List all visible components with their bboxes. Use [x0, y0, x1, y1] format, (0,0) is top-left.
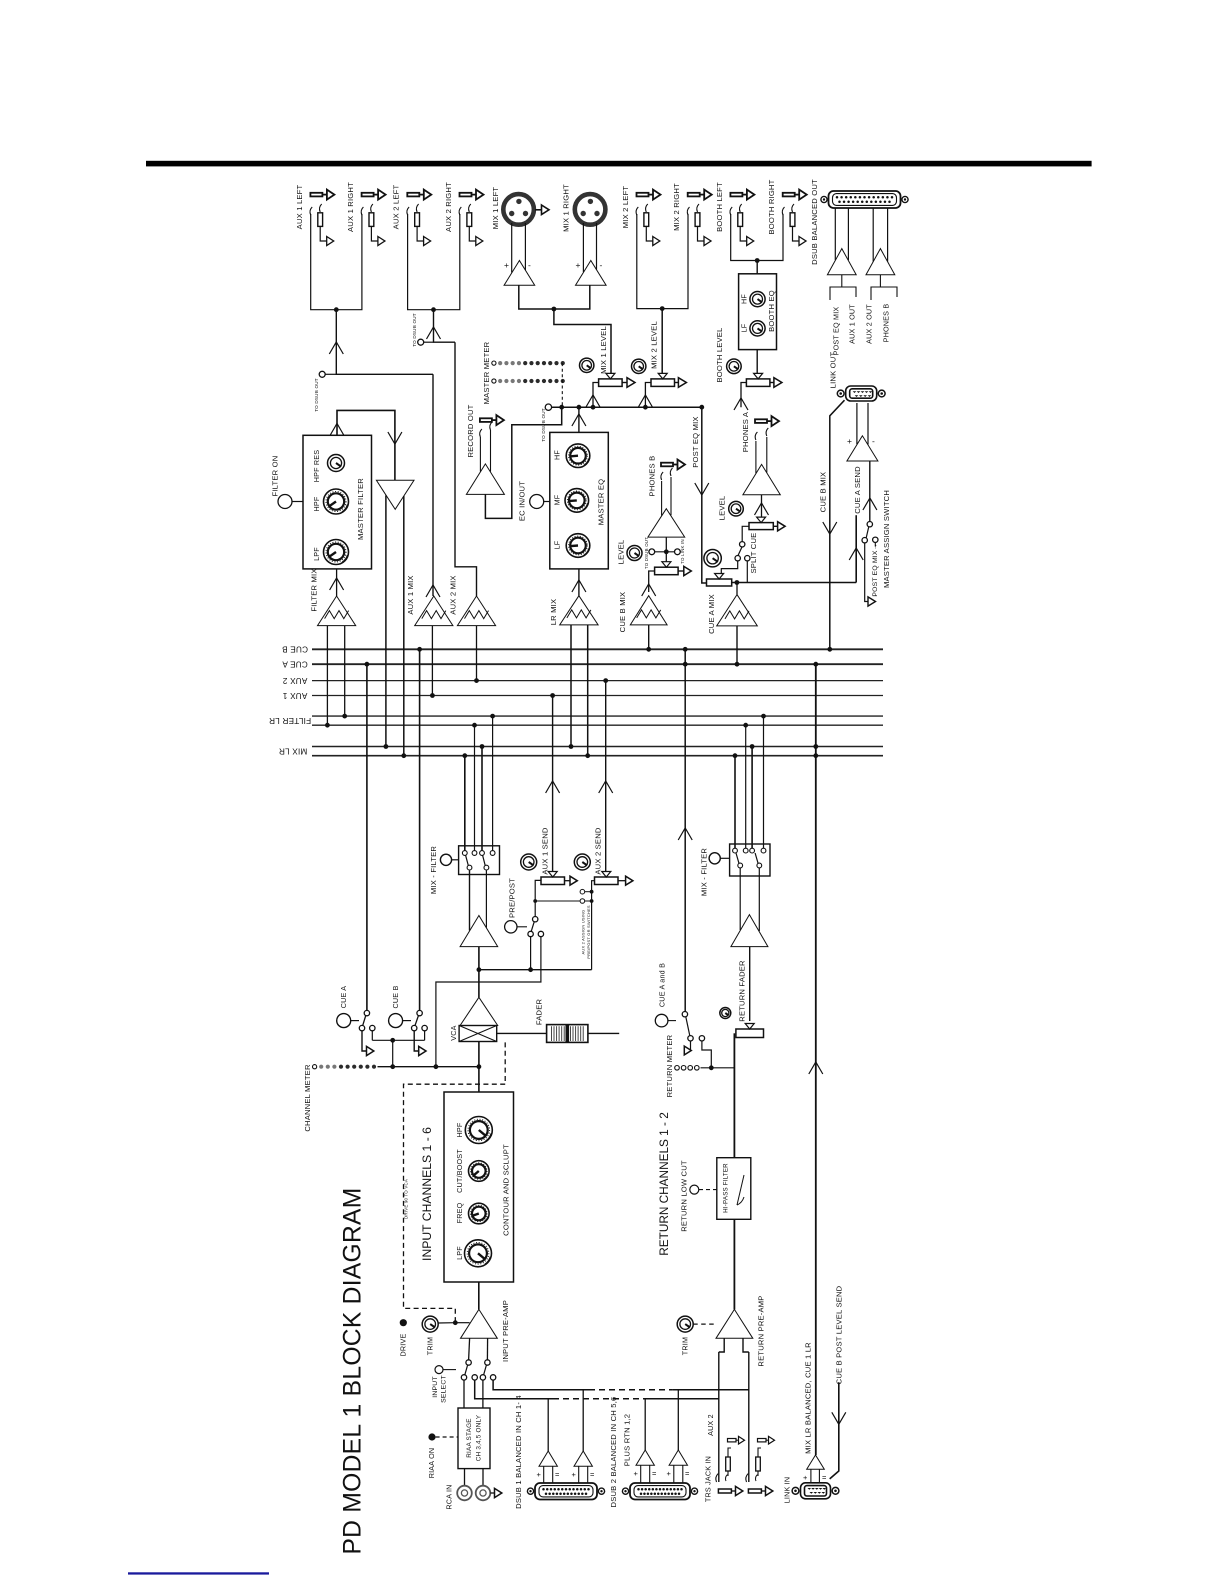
driver U-MIX1R [582, 223, 584, 272]
svg-text:DRIVE 90 TO VCA: DRIVE 90 TO VCA [404, 1179, 409, 1219]
svg-text:MF: MF [552, 494, 561, 505]
fader phones B [655, 567, 679, 575]
svg-text:HF: HF [739, 294, 748, 304]
wire return cue A and B feed [684, 649, 686, 1011]
fader AUX 2 SEND [595, 877, 619, 885]
wire post-eq rail [552, 406, 702, 408]
svg-text:DSUB 1 BALANCED IN CH 1- 4: DSUB 1 BALANCED IN CH 1- 4 [514, 1395, 523, 1509]
svg-text:VCA: VCA [449, 1025, 458, 1040]
wire aux2 fader input [592, 881, 595, 885]
bus CUEA [312, 663, 883, 665]
knob cue A level [704, 550, 721, 567]
svg-text:+: + [576, 260, 581, 270]
svg-text:RETURN PRE-AMP: RETURN PRE-AMP [756, 1295, 765, 1366]
svg-text:CUE B POST LEVEL SEND: CUE B POST LEVEL SEND [834, 1285, 843, 1384]
node TO DSUB OUT / TO LINK IN [665, 537, 667, 562]
amp RETURN PRE-AMP [716, 1309, 753, 1338]
wire AUX1 feed [336, 310, 433, 375]
driver DSUB2-L [636, 1450, 654, 1465]
svg-text:TO DSUB OUT: TO DSUB OUT [412, 313, 417, 347]
svg-text:RCA IN: RCA IN [444, 1484, 453, 1509]
svg-text:CH 3,4,5 ONLY: CH 3,4,5 ONLY [476, 1414, 483, 1461]
svg-text:CUE A and B: CUE A and B [657, 963, 666, 1007]
svg-text:TRIM: TRIM [425, 1337, 434, 1355]
svg-text:AUX 1 LEFT: AUX 1 LEFT [295, 185, 304, 230]
svg-text:PD MODEL 1 BLOCK DIAGRAM: PD MODEL 1 BLOCK DIAGRAM [339, 1187, 366, 1554]
svg-text:AUX 2: AUX 2 [706, 1414, 715, 1436]
svg-text:+: + [504, 260, 509, 270]
driver DSUB1-R [574, 1451, 592, 1466]
amp phones B [661, 481, 663, 516]
svg-text:LPF: LPF [312, 547, 321, 561]
svg-text:AUX 2 ASSIGN USING: AUX 2 ASSIGN USING [580, 910, 585, 955]
svg-text:AUX 1 MIX: AUX 1 MIX [406, 575, 415, 614]
connector LINK IN DB9 [801, 1483, 831, 1499]
svg-text:AUX 2 LEFT: AUX 2 LEFT [392, 185, 401, 230]
node TO DSUB OUT (aux1) [325, 373, 337, 375]
fader phones A [761, 495, 763, 518]
svg-text:AUX 2: AUX 2 [282, 676, 307, 685]
svg-text:FADER: FADER [535, 999, 544, 1026]
output jack BOOTH RIGHT [783, 193, 795, 197]
wire CUE B MIX input [648, 625, 650, 649]
svg-text:MIX LR: MIX LR [279, 746, 308, 755]
svg-text:RIAA ON: RIAA ON [427, 1448, 436, 1479]
svg-text:+: + [537, 1470, 542, 1479]
svg-text:MIX 2 LEFT: MIX 2 LEFT [621, 186, 630, 229]
knob TRIM (return) [677, 1316, 693, 1332]
svg-text:INPUT CHANNELS 1 - 6: INPUT CHANNELS 1 - 6 [420, 1127, 434, 1261]
switch block MIX-FILTER (return) [730, 844, 770, 876]
svg-text:=: = [652, 1469, 657, 1478]
svg-text:TO LINK IN: TO LINK IN [680, 539, 685, 564]
wire MIX2 L/R join [637, 214, 688, 309]
fader AUX 1 SEND [541, 877, 565, 885]
connector LINK OUT DB9 [846, 386, 877, 401]
wire VCA out [478, 1042, 480, 1093]
svg-text:LF: LF [739, 323, 748, 332]
wire BOOTH L/R join [731, 214, 783, 261]
output jack MIX 2 RIGHT [688, 193, 700, 197]
svg-text:AUX 1 RIGHT: AUX 1 RIGHT [346, 182, 355, 232]
svg-text:AUX 2 RIGHT: AUX 2 RIGHT [444, 182, 453, 232]
wires preamp inputs [469, 1338, 470, 1360]
svg-text:TO DSUB OUT: TO DSUB OUT [314, 378, 319, 412]
svg-text:LINK OUT: LINK OUT [828, 352, 837, 389]
wire master assign throw to arrow [865, 543, 868, 602]
svg-text:TRS JACK IN: TRS JACK IN [704, 1456, 713, 1502]
svg-text:BOOTH LEFT: BOOTH LEFT [715, 182, 724, 232]
switch CUE B (channel) [389, 1014, 403, 1028]
node DRIVE [400, 1319, 407, 1326]
svg-text:SELECT: SELECT [441, 1375, 448, 1403]
svg-text:CUE A SEND: CUE A SEND [853, 466, 862, 514]
svg-text:=: = [822, 1473, 827, 1482]
switch block MIX-FILTER (input ch) [459, 846, 500, 875]
wires MIX-FILTER box to busses [464, 756, 466, 851]
svg-text:MIX LR BALANCED, CUE 1 LR: MIX LR BALANCED, CUE 1 LR [804, 1342, 813, 1454]
svg-text:PLUS RTN 1,2: PLUS RTN 1,2 [623, 1414, 632, 1466]
wires return MIX-FILTER to busses [734, 756, 736, 849]
bus FR [312, 724, 883, 726]
wire channel amp to VCA [478, 947, 480, 998]
svg-text:+: + [634, 1469, 639, 1478]
wire FILTER MIX inputs [326, 626, 328, 726]
switch CUE A (channel) [337, 1014, 351, 1028]
fader FADER (channel) [497, 1032, 547, 1034]
svg-text:+: + [847, 436, 852, 446]
wire rail to BOOTH fader [741, 383, 746, 408]
amp channel post amp [469, 870, 471, 930]
svg-text:POST EQ MIX: POST EQ MIX [691, 416, 700, 467]
fader BOOTH LEVEL [756, 350, 758, 373]
wire AUX 1 SEND [552, 696, 554, 873]
svg-text:FILTER ON: FILTER ON [270, 456, 279, 497]
wire MIX2 feed [661, 309, 663, 373]
bus FL [312, 715, 883, 717]
amp phones A [755, 441, 757, 473]
svg-text:LF: LF [552, 540, 561, 549]
block MASTER EQ [550, 432, 609, 569]
svg-text:CUE B: CUE B [282, 645, 308, 654]
wire cue meter link [371, 1031, 373, 1041]
svg-text:LINK IN: LINK IN [782, 1477, 791, 1504]
wire channel CUE B tap [419, 649, 421, 1011]
wire phones B fader to CUE B MIX [649, 571, 655, 592]
bus AUX1 [312, 695, 883, 697]
amp CUE A MIX [717, 595, 758, 626]
wire rail to MIX2 fader [645, 383, 651, 408]
wire CUE A MIX input [736, 626, 738, 664]
fader MIX 2 LEVEL [651, 379, 675, 387]
wire dsub out sources [830, 275, 842, 300]
wire return preamp out [733, 1219, 735, 1309]
svg-text:CUE A MIX: CUE A MIX [707, 594, 716, 634]
svg-text:CHANNEL METER: CHANNEL METER [303, 1064, 312, 1132]
output jack MIX 2 LEFT [637, 193, 649, 197]
fader MIX 1 LEVEL [599, 379, 623, 387]
svg-text:RETURN FADER: RETURN FADER [738, 960, 747, 1022]
jack PHONES A [755, 419, 767, 423]
wire MIX1 drivers join [519, 285, 590, 309]
svg-text:PHONES B: PHONES B [648, 456, 657, 497]
switch EC IN/OUT [530, 495, 544, 509]
output jack AUX 1 LEFT [310, 193, 322, 197]
svg-text:INPUT: INPUT [432, 1376, 439, 1397]
wire return fader to amp [749, 947, 751, 1021]
svg-text:AUX 1: AUX 1 [282, 691, 307, 700]
svg-text:AUX 1 SEND: AUX 1 SEND [541, 827, 550, 874]
wire channel CUE A tap [366, 664, 368, 1011]
switch FILTER ON [278, 495, 292, 509]
switch RETURN LOW CUT [690, 1185, 699, 1194]
svg-text:FILTER LR: FILTER LR [269, 716, 311, 725]
output jack BOOTH LEFT [730, 193, 742, 197]
fader CUE A (post eq mix) [707, 579, 732, 586]
svg-text:LEVEL: LEVEL [617, 540, 626, 565]
svg-text:MIX 1 LEFT: MIX 1 LEFT [491, 187, 500, 230]
svg-text:FREQ: FREQ [455, 1202, 464, 1223]
wire master filter output [337, 410, 395, 480]
svg-text:=: = [590, 1470, 595, 1479]
knob phones B level [627, 546, 642, 561]
wire AUX1 L/R join [311, 214, 362, 310]
page header rule [146, 161, 1092, 167]
bus ML [312, 746, 883, 748]
bus CUEB [312, 648, 883, 650]
svg-text:SPLIT CUE: SPLIT CUE [749, 533, 758, 574]
wire AUX 2 SEND [605, 681, 607, 872]
wire rail to record-out amp [485, 407, 561, 518]
wire CUE B MIX to link out [830, 400, 845, 649]
amp AUX 1 MIX [415, 596, 453, 626]
wire pre tap [535, 880, 541, 916]
svg-text:CUE B MIX: CUE B MIX [618, 592, 627, 633]
svg-text:HPF RES: HPF RES [312, 450, 321, 483]
svg-text:HPF: HPF [455, 1122, 464, 1137]
svg-text:PRE/POST: PRE/POST [507, 878, 516, 918]
output jack AUX 2 RIGHT [460, 193, 472, 197]
wire fader VCA control (dashed) [504, 1042, 506, 1084]
svg-text:MIX 1 RIGHT: MIX 1 RIGHT [562, 184, 571, 232]
wire cue A fader out [732, 582, 857, 584]
svg-text:POST EQ MIX: POST EQ MIX [831, 307, 840, 356]
svg-text:TRIM: TRIM [680, 1337, 689, 1355]
svg-text:RETURN LOW CUT: RETURN LOW CUT [680, 1160, 689, 1232]
svg-text:DSUB 2 BALANCED IN CH 5,6: DSUB 2 BALANCED IN CH 5,6 [609, 1397, 618, 1508]
svg-text:-: - [528, 260, 531, 270]
svg-text:-: - [872, 436, 875, 446]
svg-text:AUX 2 SEND: AUX 2 SEND [594, 827, 603, 874]
svg-text:INPUT PRE-AMP: INPUT PRE-AMP [501, 1300, 510, 1362]
wire input rail A [493, 1380, 589, 1390]
amp CUE B MIX [630, 596, 667, 625]
meter RETURN METER [701, 1067, 735, 1069]
block INPUT CHANNELS 1-6 [444, 1092, 514, 1282]
svg-text:BOOTH LEVEL: BOOTH LEVEL [715, 328, 724, 383]
block BOOTH EQ [756, 261, 758, 274]
wire post tap [436, 937, 541, 1067]
svg-text:MASTER ASSIGN SWITCH: MASTER ASSIGN SWITCH [882, 490, 891, 588]
svg-text:MIX 1 LEVEL: MIX 1 LEVEL [599, 326, 608, 374]
driver U-DSUB-B [872, 208, 874, 262]
driver DSUB1-L [539, 1451, 557, 1466]
amp LR MIX [560, 596, 598, 625]
wire AUX2 L/R join [408, 214, 460, 310]
output jack AUX 1 RIGHT [362, 193, 374, 197]
driver U-LINK IN [807, 1455, 825, 1469]
svg-text:MIX 2 RIGHT: MIX 2 RIGHT [672, 183, 681, 231]
jack RECORD OUT [480, 422, 492, 437]
svg-text:CUE A: CUE A [282, 660, 308, 669]
driver DSUB2-R [669, 1450, 687, 1465]
wire MIX1 feed from level fader [554, 309, 611, 373]
svg-text:CUE B MIX: CUE B MIX [818, 472, 827, 513]
bus AUX2 [312, 680, 883, 682]
amp FILTER MIX [318, 596, 356, 626]
svg-text:DSUB BALANCED OUT: DSUB BALANCED OUT [810, 179, 819, 265]
wire rail to MIX1 fader [593, 383, 599, 408]
node TO DSUB OUT (rail) [545, 404, 551, 410]
wires return box to amp [739, 868, 741, 930]
svg-text:CUE B: CUE B [391, 986, 400, 1009]
fader RETURN FADER [736, 1029, 764, 1038]
svg-text:MIX - FILTER: MIX - FILTER [429, 846, 438, 895]
node RIAA ON [428, 1433, 435, 1440]
svg-text:EC IN/OUT: EC IN/OUT [517, 481, 526, 521]
wires input select to RIAA [463, 1380, 465, 1408]
svg-text:MIX - FILTER: MIX - FILTER [700, 848, 709, 897]
svg-text:+: + [803, 1473, 808, 1482]
svg-text:HI-PASS FILTER: HI-PASS FILTER [723, 1163, 730, 1213]
dashed box input channels [404, 1084, 506, 1321]
wire channel meter node [378, 1066, 479, 1068]
svg-text:POST EQ MIX→: POST EQ MIX→ [872, 543, 879, 596]
svg-text:AUX 1 OUT: AUX 1 OUT [848, 304, 857, 344]
connector MIX 1 LEFT XLR [503, 194, 534, 225]
switch INPUT SELECT [435, 1366, 443, 1374]
wire EQ out to rail [578, 407, 580, 432]
svg-text:PHONES B: PHONES B [882, 304, 891, 343]
switch aux2 assign [591, 885, 593, 970]
wire cue A to phones [362, 1031, 367, 1051]
svg-text:BOOTH EQ: BOOTH EQ [767, 290, 776, 332]
wire master assign to link driver [869, 461, 871, 522]
svg-text:=: = [685, 1469, 690, 1478]
svg-text:CUT/BOOST: CUT/BOOST [455, 1149, 464, 1193]
wire LR MIX inputs [570, 625, 572, 747]
svg-text:CUE A: CUE A [339, 986, 348, 1009]
svg-text:AUX 2 MIX: AUX 2 MIX [449, 575, 458, 614]
block MASTER FILTER [303, 435, 372, 569]
svg-text:HF: HF [552, 450, 561, 460]
node TO DSUB OUT (aux2) [423, 341, 433, 343]
svg-text:FILTER MIX: FILTER MIX [310, 568, 319, 611]
svg-text:CONTOUR AND SCLUPT: CONTOUR AND SCLUPT [501, 1144, 510, 1236]
svg-text:+: + [572, 1470, 577, 1479]
svg-text:TO DSUB OUT: TO DSUB OUT [644, 537, 649, 569]
page footer rule [128, 1572, 269, 1574]
svg-text:MIX 2 LEVEL: MIX 2 LEVEL [650, 321, 659, 369]
svg-text:RETURN CHANNELS 1 - 2: RETURN CHANNELS 1 - 2 [657, 1112, 671, 1256]
svg-text:LR MIX: LR MIX [549, 599, 558, 626]
driver U-LINK OUT [847, 436, 878, 461]
svg-text:RECORD OUT: RECORD OUT [466, 404, 475, 457]
jack PHONES B [661, 463, 673, 467]
wire CUE A SEND [855, 515, 857, 582]
svg-text:RIAA STAGE: RIAA STAGE [466, 1418, 473, 1458]
VCA [460, 997, 498, 1025]
wire POST EQ MIX drop [702, 407, 707, 583]
svg-text:HPF: HPF [312, 496, 321, 511]
jack TRS 2 [748, 1489, 761, 1493]
svg-text:+: + [667, 1469, 672, 1478]
knob phones A level [729, 501, 744, 516]
wire filter return to MIX busses [385, 495, 387, 746]
svg-text:DRIVE: DRIVE [399, 1334, 408, 1357]
svg-text:-: - [600, 260, 603, 270]
knob TRIM (input) [422, 1316, 438, 1332]
svg-text:MASTER METER: MASTER METER [482, 341, 491, 404]
amp return post [731, 915, 768, 947]
svg-text:RETURN METER: RETURN METER [665, 1034, 674, 1097]
switch CUE A and B (return) [655, 1014, 668, 1027]
switch MASTER ASSIGN [862, 538, 867, 543]
wire MIX LR BALANCED CUE 1 LR [815, 664, 817, 1455]
svg-text:BOOTH RIGHT: BOOTH RIGHT [767, 179, 776, 234]
connector DSUB BALANCED OUT [829, 191, 901, 208]
amp record out [466, 464, 504, 495]
wire input rail B [475, 1380, 553, 1399]
amp AUX 2 MIX [457, 596, 495, 626]
output jack AUX 2 LEFT [407, 193, 419, 197]
svg-text:=: = [555, 1470, 560, 1479]
block RIAA STAGE [458, 1408, 490, 1469]
wire AUX1 MIX input [431, 626, 433, 696]
connector MIX 1 RIGHT XLR [575, 194, 606, 225]
driver U-DSUB-A [834, 208, 836, 260]
wires TRS to return preamp [718, 1352, 720, 1482]
svg-text:AUX 2 OUT: AUX 2 OUT [865, 304, 874, 344]
svg-text:MASTER EQ: MASTER EQ [597, 479, 606, 526]
switch SPLIT CUE [742, 526, 749, 541]
wire return to fader [733, 1033, 735, 1157]
amp INPUT PRE-AMP [478, 1282, 480, 1309]
connector RCA IN [464, 1469, 466, 1486]
wire AUX2 feed [434, 310, 456, 343]
switch PRE/POST [479, 969, 592, 971]
wire AUX2 MIX input [476, 626, 478, 681]
svg-text:PHONES A: PHONES A [741, 411, 750, 452]
svg-text:MASTER FILTER: MASTER FILTER [356, 478, 365, 540]
bus MR [312, 755, 883, 757]
amp filter return [376, 480, 414, 509]
svg-text:LPF: LPF [455, 1246, 464, 1260]
svg-text:LEVEL: LEVEL [718, 496, 727, 521]
svg-text:PRE/POST OR SWITCHES: PRE/POST OR SWITCHES [586, 905, 591, 959]
wire cue B to phones [414, 1031, 419, 1051]
block HI-PASS FILTER [717, 1158, 751, 1220]
driver U-MIX1L [511, 223, 513, 273]
